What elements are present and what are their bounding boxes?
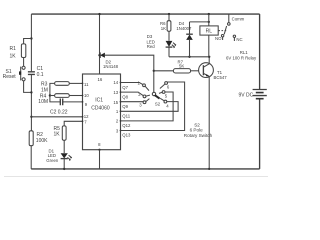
wire left rail lower segment xyxy=(30,75,32,131)
svg-text:0.1: 0.1 xyxy=(37,72,44,78)
LED D1 xyxy=(61,153,68,158)
svg-text:Q13: Q13 xyxy=(122,133,131,138)
svg-text:C2 0.22: C2 0.22 xyxy=(50,110,68,116)
capacitor C2 plates xyxy=(60,99,62,106)
wire Q12 wrap to contact 5 xyxy=(121,92,174,121)
svg-text:15: 15 xyxy=(113,100,118,105)
wire R3 to pin 11 xyxy=(69,82,82,84)
svg-text:Q9: Q9 xyxy=(122,104,128,109)
svg-text:1N4007: 1N4007 xyxy=(176,26,192,31)
diode D4 1N4007 xyxy=(189,22,191,34)
node junction D4-node xyxy=(188,56,190,58)
wire pin 8 to ground xyxy=(99,150,101,169)
node junction S1-rail xyxy=(30,91,32,93)
wire R6 to D3 xyxy=(168,31,170,41)
relay coil RL box xyxy=(200,26,218,35)
node contact 5 xyxy=(162,91,165,94)
wire collector node xyxy=(169,56,209,58)
svg-text:Q12: Q12 xyxy=(122,123,131,128)
node contact 2 xyxy=(143,95,146,98)
svg-text:1K: 1K xyxy=(161,26,166,31)
wire left rail upper segment xyxy=(30,14,32,71)
svg-text:Rotary Switch: Rotary Switch xyxy=(184,133,213,138)
wire bottom ground rail xyxy=(31,168,259,170)
wire D4 bracket xyxy=(190,21,209,23)
wire pin 7 to R5 xyxy=(64,121,82,126)
svg-text:11: 11 xyxy=(84,82,89,87)
wire R6 top lead xyxy=(168,14,170,21)
svg-text:Q7: Q7 xyxy=(122,85,128,90)
wire R1 to S1 xyxy=(23,58,25,67)
LED D3 red xyxy=(166,41,173,47)
node NO contact xyxy=(221,35,223,37)
wire right rail lower xyxy=(259,99,261,169)
wire top supply rail xyxy=(31,13,259,15)
node junction pin12-rail xyxy=(30,116,32,118)
svg-text:14: 14 xyxy=(113,80,118,85)
wire emitter down xyxy=(208,76,210,168)
svg-text:5K: 5K xyxy=(179,64,184,69)
svg-text:R1: R1 xyxy=(10,46,17,52)
wire D3 to node xyxy=(168,47,170,57)
node junction pin16-toprail xyxy=(98,13,100,15)
svg-text:6V 100 R Relay: 6V 100 R Relay xyxy=(226,55,257,60)
wire base to R7 xyxy=(154,70,174,72)
resistor R4 xyxy=(55,94,70,98)
node junction D2-pin16 wire xyxy=(98,54,100,56)
node contact 3 xyxy=(143,101,146,104)
node junction D1-ground xyxy=(63,168,65,170)
node junction R6-toprail xyxy=(168,13,170,15)
svg-text:Red: Red xyxy=(147,44,155,49)
node pin connection dots xyxy=(82,83,84,85)
wire RL top lead xyxy=(208,14,210,26)
svg-text:1N4148: 1N4148 xyxy=(103,64,119,69)
wire R4 to pin 10 xyxy=(69,95,82,97)
wire R2 to ground rail xyxy=(30,146,32,169)
svg-text:100K: 100K xyxy=(36,138,48,144)
node NC contact xyxy=(233,35,235,37)
svg-text:Q11: Q11 xyxy=(122,113,130,118)
svg-text:1K: 1K xyxy=(10,54,17,60)
wire RL bottom lead xyxy=(208,35,210,57)
wire Q8 to contact 2 xyxy=(121,92,144,96)
wire R1 top lead xyxy=(24,39,32,44)
node junction base wire xyxy=(153,70,155,72)
node contact 1 xyxy=(143,84,146,87)
svg-text:16: 16 xyxy=(98,77,103,82)
svg-text:NO: NO xyxy=(215,36,222,41)
wire Q7 to contact 1 xyxy=(121,83,143,85)
resistor R1 xyxy=(21,44,25,58)
resistor R6 xyxy=(167,21,171,32)
node junction collector-node xyxy=(208,56,210,58)
switch S1 push button xyxy=(22,66,25,69)
rotary switch S2 pole xyxy=(152,92,155,95)
transistor T1 BC547 xyxy=(199,63,214,78)
node junction bracket-RL wire xyxy=(208,21,210,23)
svg-text:1K: 1K xyxy=(54,132,61,138)
svg-text:CD4060: CD4060 xyxy=(91,106,110,112)
wire R5 to D1 xyxy=(63,140,65,153)
wire oscillator bus xyxy=(50,83,60,102)
node junction R1-rail xyxy=(30,37,32,39)
resistor R7 xyxy=(173,69,190,73)
svg-text:Q8: Q8 xyxy=(122,95,128,100)
svg-text:10M: 10M xyxy=(38,99,48,105)
wire R7 to base xyxy=(191,70,204,72)
capacitor C1 plates xyxy=(28,72,35,75)
node contact 4 xyxy=(164,100,167,103)
battery 9V DC xyxy=(253,90,267,96)
svg-text:Comm: Comm xyxy=(232,17,245,22)
relay armature xyxy=(224,26,226,34)
node junction R4-bus xyxy=(49,94,51,96)
switch wiper xyxy=(155,95,160,99)
wire Q11 wrap to contact 4 xyxy=(121,102,179,112)
wire D2 to switch pole xyxy=(105,55,154,92)
svg-text:S2: S2 xyxy=(155,101,161,106)
svg-text:IC1: IC1 xyxy=(95,97,103,103)
op-amp IC1 CD4060 box xyxy=(83,74,121,150)
svg-text:9V DC: 9V DC xyxy=(239,93,254,99)
svg-text:NC: NC xyxy=(236,37,242,42)
node junction RL-toprail xyxy=(208,13,210,15)
wire right positive rail upper xyxy=(259,14,261,89)
svg-text:10: 10 xyxy=(84,93,89,98)
wire Q9 to contact 3 xyxy=(121,101,144,103)
svg-text:13: 13 xyxy=(113,90,118,95)
wire pin 16 from top rail xyxy=(99,14,101,74)
wire collector up xyxy=(208,57,210,64)
node junction emitter-ground xyxy=(208,168,210,170)
wire Q13 wrap to contact 6 xyxy=(121,82,185,131)
wire pin 12 xyxy=(31,116,82,118)
node contact 6 xyxy=(165,82,168,85)
wire R4 left lead xyxy=(50,95,55,97)
wire Comm stub xyxy=(228,14,230,23)
resistor R3 xyxy=(55,82,70,86)
resistor R5 xyxy=(62,126,66,140)
mechanical link dashed xyxy=(218,30,226,32)
wire D1 to ground rail xyxy=(63,159,65,169)
resistor R2 xyxy=(29,131,33,146)
diode D2 1N4148 xyxy=(100,53,105,58)
node Comm contact xyxy=(228,23,231,26)
wire S1 bottom to rail xyxy=(24,81,32,93)
svg-text:1M: 1M xyxy=(41,87,48,93)
scan artifact line xyxy=(4,176,268,178)
wire C2 to pin 9 xyxy=(63,101,83,103)
svg-text:RL: RL xyxy=(206,29,213,35)
svg-text:BC547: BC547 xyxy=(214,75,228,80)
svg-text:Green: Green xyxy=(46,158,59,163)
svg-text:Reset: Reset xyxy=(3,74,17,80)
